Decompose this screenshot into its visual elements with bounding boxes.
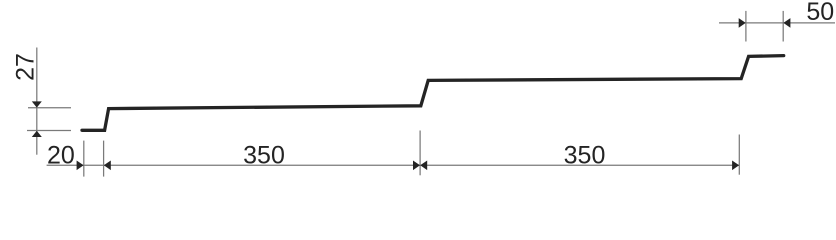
bottom dimension line xyxy=(47,164,740,166)
dimension 27 arrow up xyxy=(32,131,42,137)
top dim right extension line xyxy=(782,11,784,42)
dim 20 left outside arrow xyxy=(77,161,84,171)
svg-text:27: 27 xyxy=(11,53,39,81)
label 20 xyxy=(47,142,75,170)
dim 20 right outside arrow / dim 350 left arrow xyxy=(104,161,111,171)
dim 350 shared arrow pointing left at x=420 xyxy=(420,161,427,171)
svg-text:350: 350 xyxy=(564,142,606,170)
extension line at x=739.3 xyxy=(738,135,740,175)
label 50 xyxy=(806,0,834,26)
dim 350 right arrow at x=739 xyxy=(732,161,739,171)
dim 50 left outside arrow xyxy=(739,18,746,28)
svg-text:50: 50 xyxy=(806,0,834,26)
profile outline (stepped sheet cross-section) xyxy=(82,56,784,131)
extension line at x=103.6 xyxy=(103,141,105,177)
label 350 first xyxy=(243,142,285,170)
dimension 27 top extension line xyxy=(28,107,71,109)
dimension 27 bottom extension line xyxy=(27,130,71,132)
svg-text:350: 350 xyxy=(243,142,285,170)
top dim left extension line xyxy=(745,11,747,42)
label 350 second xyxy=(564,142,606,170)
top dimension line 50 xyxy=(719,22,835,24)
extension line at x=420.1 xyxy=(419,131,421,176)
dim 50 right outside arrow xyxy=(783,18,790,28)
label 27 (rotated) xyxy=(11,53,39,81)
extension line at x=83.8 xyxy=(83,141,85,177)
dim 350 shared arrow pointing right at x=420 xyxy=(413,161,420,171)
dimension 27 vertical line xyxy=(36,48,38,155)
dimension 27 arrow down xyxy=(32,101,42,107)
svg-text:20: 20 xyxy=(47,142,75,170)
